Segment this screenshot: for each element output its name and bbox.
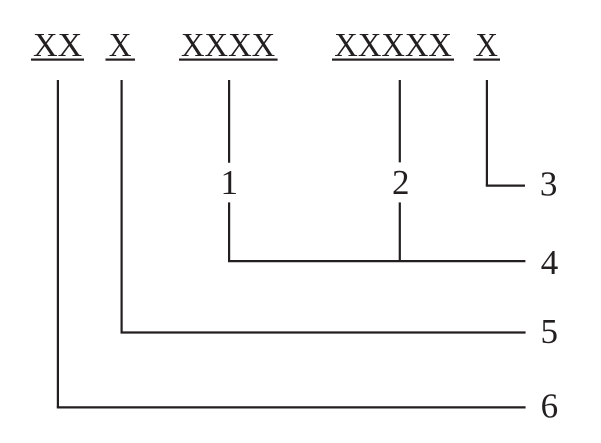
svg-text:2: 2: [392, 163, 410, 202]
wire leader 4 horizontal: [228, 260, 525, 262]
wire leader 3 horizontal: [486, 185, 525, 187]
underline under last X: [474, 59, 501, 61]
svg-text:6: 6: [541, 387, 559, 426]
wire from label 2 down to leader 4: [399, 202, 401, 261]
svg-text:4: 4: [541, 243, 559, 282]
underline under XXXXX: [332, 59, 454, 61]
underline under second X: [106, 59, 136, 61]
svg-text:1: 1: [221, 163, 239, 202]
wire from XXXXX down to label 2: [399, 80, 401, 162]
underline under XXXX: [179, 59, 278, 61]
wire from XXXX down to label 1: [228, 80, 230, 163]
wire leader 6 horizontal: [57, 406, 526, 408]
svg-text:5: 5: [540, 312, 558, 351]
underline under XX: [31, 59, 84, 61]
wire leader 5 horizontal: [121, 331, 526, 333]
wire from last X down (leader 3 vertical): [486, 80, 488, 186]
wire from label 1 down to leader 4: [228, 202, 230, 261]
wire from second X down (leader 5 vertical): [120, 80, 122, 333]
svg-text:3: 3: [540, 165, 558, 204]
wire from XX down (leader 6 vertical): [57, 80, 59, 407]
